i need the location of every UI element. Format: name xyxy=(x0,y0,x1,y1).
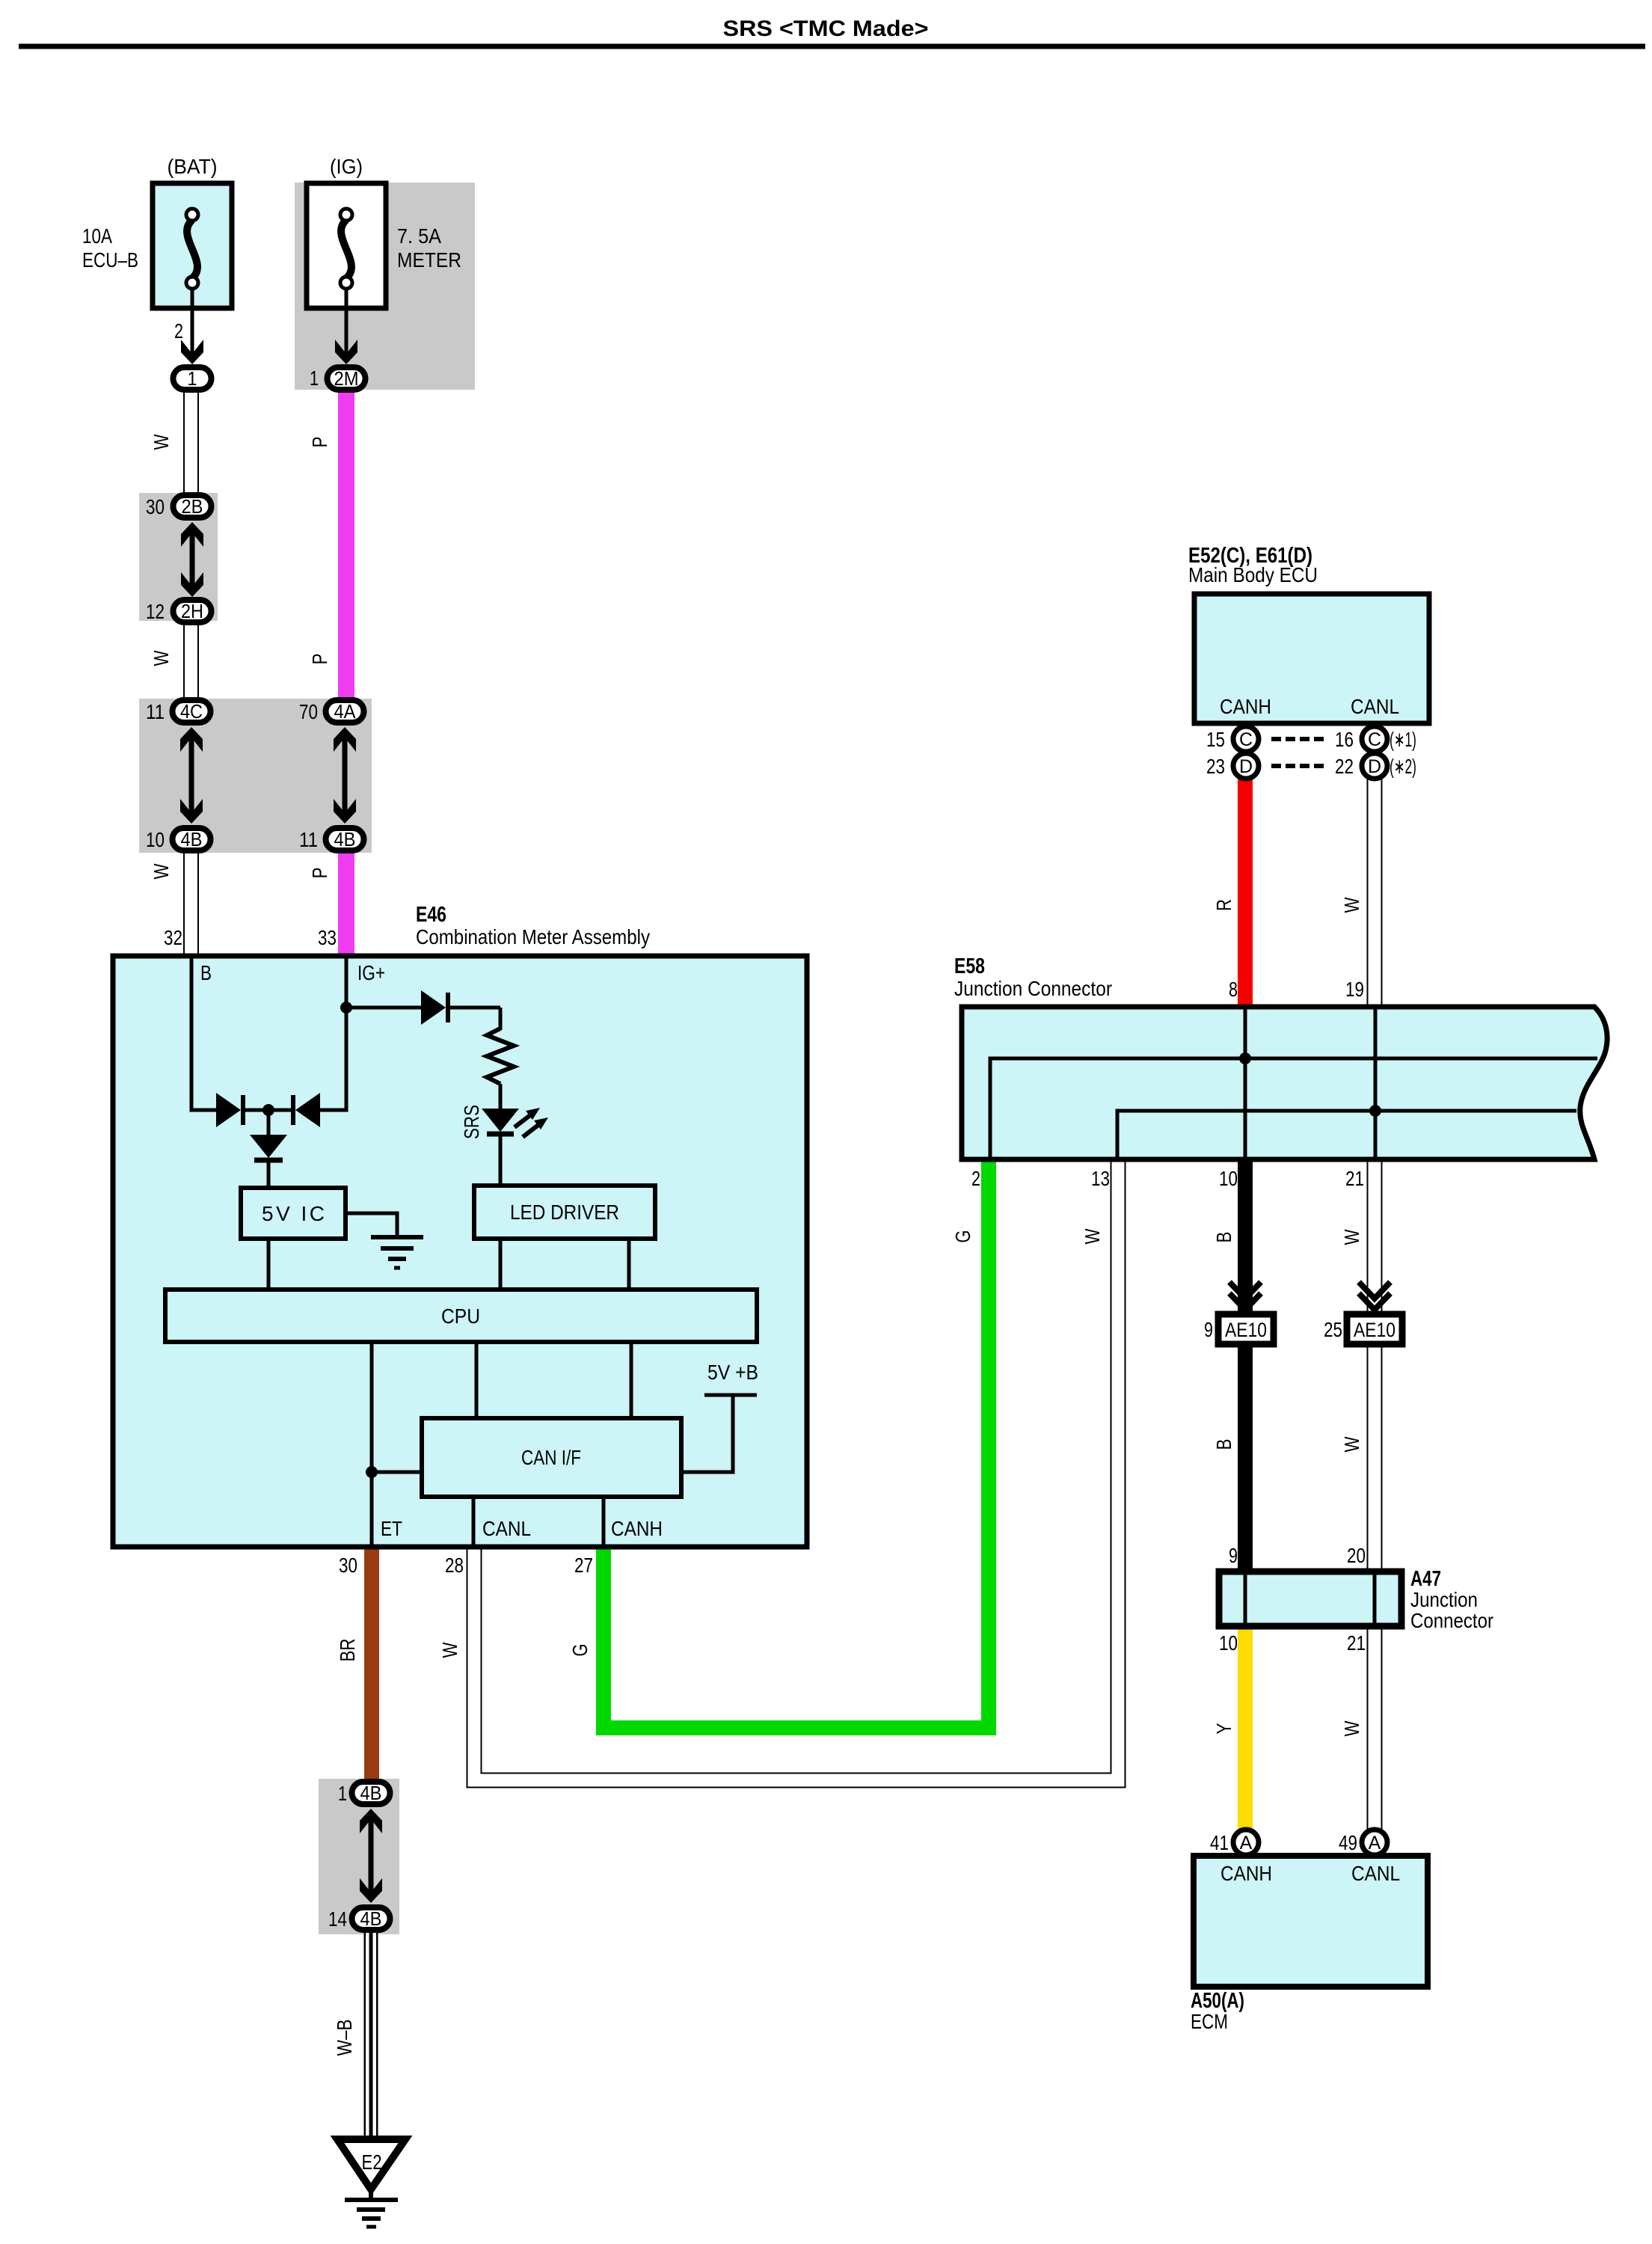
svg-text:W: W xyxy=(150,650,173,666)
E46 internal CANL line xyxy=(472,1497,476,1545)
wire W segment connector 1 to 2B xyxy=(183,393,199,495)
svg-text:W: W xyxy=(438,1642,461,1658)
wire D3 to 5V IC xyxy=(267,1160,271,1188)
svg-text:4C: 4C xyxy=(180,700,203,723)
gray panel around connectors 4B-4B lower xyxy=(319,1779,399,1934)
svg-text:P: P xyxy=(308,654,331,665)
svg-text:20: 20 xyxy=(1347,1544,1366,1567)
block CAN I/F xyxy=(422,1418,681,1497)
svg-text:4B: 4B xyxy=(360,1907,382,1930)
svg-text:11: 11 xyxy=(146,700,165,723)
svg-text:D: D xyxy=(1368,756,1381,777)
connector 1 xyxy=(174,367,212,390)
diode D3 xyxy=(250,1135,287,1160)
junction dot diode pair xyxy=(262,1104,274,1116)
svg-text:W: W xyxy=(1340,1436,1363,1452)
svg-text:IG+: IG+ xyxy=(357,961,385,984)
fuse 10A ECU-B xyxy=(153,183,232,310)
diode D4 xyxy=(421,990,448,1025)
svg-text:LED DRIVER: LED DRIVER xyxy=(510,1201,619,1224)
svg-text:49: 49 xyxy=(1339,1831,1357,1854)
svg-text:P: P xyxy=(308,437,331,448)
wire W-B connector 4B to ground E2 xyxy=(364,1932,378,2139)
svg-text:AE10: AE10 xyxy=(1354,1319,1395,1341)
wire Y A47 pin 10 to ECM pin 41 xyxy=(1238,1623,1253,1831)
svg-text:W: W xyxy=(150,863,173,879)
E58 internal line pin 8 to pin 10 xyxy=(1244,1009,1247,1157)
svg-text:4A: 4A xyxy=(334,700,357,723)
svg-text:W: W xyxy=(1340,1720,1363,1736)
svg-text:Main Body ECU: Main Body ECU xyxy=(1188,563,1318,586)
svg-text:W: W xyxy=(1081,1228,1104,1244)
svg-text:W–B: W–B xyxy=(333,2020,356,2056)
connector A pin 49 xyxy=(1362,1830,1387,1855)
junction arrows 2B-2H xyxy=(181,522,203,597)
svg-text:CANH: CANH xyxy=(611,1517,663,1540)
svg-text:5V IC: 5V IC xyxy=(262,1202,325,1225)
svg-text:AE10: AE10 xyxy=(1225,1319,1267,1341)
wire 5V IC to internal ground xyxy=(346,1213,397,1235)
svg-text:SRS: SRS xyxy=(460,1105,483,1139)
gray panel around connectors 4C-4A-4B-4B xyxy=(139,699,372,853)
wire LED DRIVER to CPU left xyxy=(499,1239,503,1290)
wire 5V +B to CAN I/F xyxy=(681,1395,733,1472)
svg-text:2B: 2B xyxy=(182,495,203,518)
wire D4 to resistor xyxy=(448,1006,500,1010)
wire W segment 4B to E46 pin 32 xyxy=(183,852,199,958)
svg-text:2: 2 xyxy=(174,319,183,343)
wire 5V IC to CPU xyxy=(267,1239,271,1290)
wire fuse METER to connector 2M xyxy=(345,308,348,356)
svg-text:1: 1 xyxy=(338,1782,347,1805)
E58 junction dot upper bus xyxy=(1239,1052,1251,1064)
diode D1 xyxy=(216,1093,243,1127)
E46 internal ET line xyxy=(370,1342,374,1545)
svg-text:E46: E46 xyxy=(416,903,446,927)
svg-text:4B: 4B xyxy=(334,828,356,850)
inline connector arrows W wire xyxy=(1359,1282,1390,1310)
connector 2B pin 30 xyxy=(174,495,212,518)
diode D2 xyxy=(293,1093,320,1127)
svg-text:ET: ET xyxy=(381,1517,402,1540)
5V +B supply bar xyxy=(704,1394,757,1397)
svg-text:C: C xyxy=(1368,729,1381,750)
svg-text:14: 14 xyxy=(328,1907,347,1931)
E46 internal CANH line xyxy=(602,1497,606,1545)
svg-text:A: A xyxy=(1240,1833,1253,1854)
block E58 Junction Connector xyxy=(962,1007,1607,1159)
wire BR E46 pin 30 to connector 4B xyxy=(364,1545,379,1782)
wire P segment 4B to E46 pin 33 xyxy=(338,852,354,958)
block LED DRIVER xyxy=(474,1186,655,1239)
wire R Main Body ECU D to E58 pin 8 xyxy=(1238,778,1253,1010)
connector 4B pin 10 xyxy=(173,828,211,850)
LED SRS indicator xyxy=(482,1109,519,1134)
svg-text:27: 27 xyxy=(574,1554,593,1577)
svg-text:4B: 4B xyxy=(360,1782,382,1804)
wire fuse ECU-B to connector 1 xyxy=(191,308,194,356)
connector 4B pin 14 lower xyxy=(352,1907,390,1930)
wire B E58 pin 10 to AE10 xyxy=(1238,1156,1253,1318)
svg-text:(∗1): (∗1) xyxy=(1390,728,1416,751)
svg-text:Y: Y xyxy=(1212,1723,1235,1734)
wire G E46 CANH pin 27 to E58 pin 2 xyxy=(604,1156,989,1728)
svg-text:P: P xyxy=(308,868,331,879)
gray panel around METER fuse and 2M connector xyxy=(295,183,475,390)
wire P segment 2M to 4A xyxy=(338,391,354,700)
svg-text:23: 23 xyxy=(1206,755,1225,778)
svg-text:21: 21 xyxy=(1347,1631,1366,1655)
svg-text:10A: 10A xyxy=(82,224,112,248)
connector AE10 pin 25 xyxy=(1347,1314,1402,1344)
gray panel around connectors 2B-2H xyxy=(139,493,218,621)
svg-text:25: 25 xyxy=(1324,1318,1342,1341)
svg-text:19: 19 xyxy=(1345,978,1364,1001)
wire W A47 pin 21 to ECM pin 49 xyxy=(1367,1623,1383,1831)
svg-text:B: B xyxy=(1212,1439,1235,1450)
connector 4B pin 11 xyxy=(326,828,364,850)
connector 2H pin 12 xyxy=(174,600,212,622)
block E46 Combination Meter Assembly xyxy=(113,956,807,1547)
svg-text:CANH: CANH xyxy=(1220,1862,1272,1885)
wire W E58 pin 21 to A47 pin 20 xyxy=(1367,1156,1383,1575)
svg-text:B: B xyxy=(200,961,212,984)
svg-text:9: 9 xyxy=(1204,1318,1213,1341)
resistor R1 xyxy=(487,1028,514,1084)
svg-text:12: 12 xyxy=(146,600,165,623)
wire to IG+ line xyxy=(320,958,346,1110)
junction dot ET xyxy=(366,1466,378,1478)
E58 internal bus line upper xyxy=(990,1058,1597,1157)
block 5V IC xyxy=(241,1188,346,1239)
svg-text:22: 22 xyxy=(1335,755,1354,778)
wire LED to LED DRIVER xyxy=(499,1132,503,1186)
connector C pin 15 xyxy=(1233,726,1259,752)
svg-text:G: G xyxy=(568,1644,592,1657)
svg-text:B: B xyxy=(1212,1232,1235,1243)
connector 4C pin 11 xyxy=(173,700,211,723)
svg-text:C: C xyxy=(1239,729,1253,750)
svg-text:5V +B: 5V +B xyxy=(707,1361,758,1384)
svg-text:E58: E58 xyxy=(954,954,985,978)
svg-text:28: 28 xyxy=(445,1554,464,1577)
wire W segment 2H to 4C xyxy=(183,624,199,700)
svg-text:8: 8 xyxy=(1229,978,1238,1001)
svg-text:1: 1 xyxy=(188,367,197,390)
svg-text:W: W xyxy=(1340,897,1363,913)
junction dot IG+ xyxy=(340,1002,352,1014)
svg-text:ECM: ECM xyxy=(1191,2010,1228,2033)
svg-text:41: 41 xyxy=(1210,1831,1229,1854)
svg-text:A: A xyxy=(1369,1833,1381,1854)
wire W Main Body ECU D to E58 pin 19 xyxy=(1367,778,1383,1010)
svg-text:Junction Connector: Junction Connector xyxy=(954,977,1112,1000)
svg-text:2H: 2H xyxy=(181,600,203,622)
wire W E46 CANL pin 28 to E58 pin 13 xyxy=(474,1156,1118,1780)
svg-text:(∗2): (∗2) xyxy=(1390,755,1416,778)
svg-text:11: 11 xyxy=(299,828,318,851)
dashed link D-D xyxy=(1271,764,1324,768)
wire diode junction xyxy=(245,1109,293,1112)
svg-text:70: 70 xyxy=(299,700,318,723)
dashed link C-C xyxy=(1271,737,1324,741)
E58 internal line pin 19 to pin 21 xyxy=(1374,1009,1378,1157)
svg-text:10: 10 xyxy=(1219,1631,1238,1655)
arrow into connector 2M xyxy=(335,340,357,364)
svg-text:4B: 4B xyxy=(181,828,203,850)
junction arrows 4B-4B lower xyxy=(360,1809,382,1903)
inline connector arrows B wire xyxy=(1229,1282,1261,1310)
svg-text:Connector: Connector xyxy=(1410,1609,1493,1632)
A47 internal line right xyxy=(1373,1575,1377,1623)
fuse 7.5A METER xyxy=(307,183,386,310)
svg-text:ECU–B: ECU–B xyxy=(82,248,138,272)
svg-text:D: D xyxy=(1239,756,1253,777)
junction arrows 4C-4B xyxy=(180,727,203,824)
connector A pin 41 xyxy=(1233,1830,1259,1855)
svg-text:(IG): (IG) xyxy=(330,155,363,178)
top rule xyxy=(19,44,1645,49)
svg-text:13: 13 xyxy=(1091,1167,1110,1190)
svg-text:E2: E2 xyxy=(362,2150,382,2174)
connector 4B pin 1 lower xyxy=(352,1782,390,1804)
svg-text:W: W xyxy=(150,434,173,450)
svg-text:1: 1 xyxy=(310,367,319,390)
arrow into connector 1 xyxy=(181,340,203,364)
connector AE10 pin 9 xyxy=(1218,1314,1274,1344)
svg-text:16: 16 xyxy=(1335,728,1354,751)
wire IG+ to diode D4 xyxy=(346,1006,421,1010)
svg-text:W: W xyxy=(1340,1229,1363,1245)
svg-text:33: 33 xyxy=(318,926,337,949)
svg-text:CANH: CANH xyxy=(1220,695,1271,718)
block A47 Junction Connector xyxy=(1219,1572,1401,1626)
E58 junction dot lower bus xyxy=(1369,1105,1381,1117)
svg-text:R: R xyxy=(1212,899,1235,911)
junction arrows 4A-4B xyxy=(334,727,356,824)
svg-text:METER: METER xyxy=(397,248,461,272)
svg-text:(BAT): (BAT) xyxy=(168,155,218,178)
svg-text:7. 5A: 7. 5A xyxy=(397,224,441,248)
wire CPU to CAN I/F right xyxy=(630,1342,633,1418)
svg-text:2M: 2M xyxy=(334,367,359,390)
svg-text:Combination Meter Assembly: Combination Meter Assembly xyxy=(416,925,650,948)
svg-text:32: 32 xyxy=(164,926,182,949)
svg-text:CANL: CANL xyxy=(1351,1862,1400,1885)
A47 internal line left xyxy=(1244,1575,1247,1623)
svg-text:21: 21 xyxy=(1345,1167,1364,1190)
svg-text:CANL: CANL xyxy=(482,1517,531,1540)
wire resistor to LED xyxy=(499,1084,503,1109)
ground symbol internal xyxy=(371,1237,423,1268)
wire CPU to CAN I/F left xyxy=(475,1342,479,1418)
ground E2 xyxy=(337,2139,405,2227)
wire ET junction to CAN I/F xyxy=(372,1471,422,1474)
wire junction to diode D3 xyxy=(267,1110,271,1135)
svg-text:CANL: CANL xyxy=(1351,695,1399,718)
connector D pin 22 xyxy=(1362,753,1387,779)
svg-text:30: 30 xyxy=(146,495,165,518)
E58 internal bus line lower xyxy=(1117,1111,1576,1157)
connector 4A pin 70 xyxy=(326,700,364,723)
E46 internal B supply line from pin 32 xyxy=(191,958,216,1110)
svg-text:Junction: Junction xyxy=(1410,1588,1478,1611)
svg-text:CAN I/F: CAN I/F xyxy=(521,1446,581,1469)
wire B AE10 to A47 pin 9 xyxy=(1238,1340,1253,1575)
svg-text:CPU: CPU xyxy=(441,1305,480,1328)
svg-text:BR: BR xyxy=(336,1639,359,1662)
block A50(A) ECM xyxy=(1194,1856,1428,1987)
connector C pin 16 xyxy=(1362,726,1387,752)
svg-text:10: 10 xyxy=(146,828,165,851)
svg-text:SRS <TMC Made>: SRS <TMC Made> xyxy=(723,16,929,41)
svg-text:15: 15 xyxy=(1206,728,1225,751)
svg-text:9: 9 xyxy=(1229,1544,1238,1567)
block E52(C) E61(D) Main Body ECU xyxy=(1194,594,1429,723)
svg-text:30: 30 xyxy=(339,1554,357,1577)
svg-text:G: G xyxy=(951,1230,974,1243)
wire LED DRIVER to CPU right xyxy=(627,1239,631,1290)
connector 2M xyxy=(328,367,366,390)
block CPU xyxy=(165,1290,757,1342)
wire into resistor xyxy=(499,1008,503,1030)
LED emission arrows xyxy=(515,1108,548,1137)
svg-text:2: 2 xyxy=(971,1167,980,1190)
connector D pin 23 xyxy=(1233,753,1259,779)
svg-text:10: 10 xyxy=(1219,1167,1238,1190)
